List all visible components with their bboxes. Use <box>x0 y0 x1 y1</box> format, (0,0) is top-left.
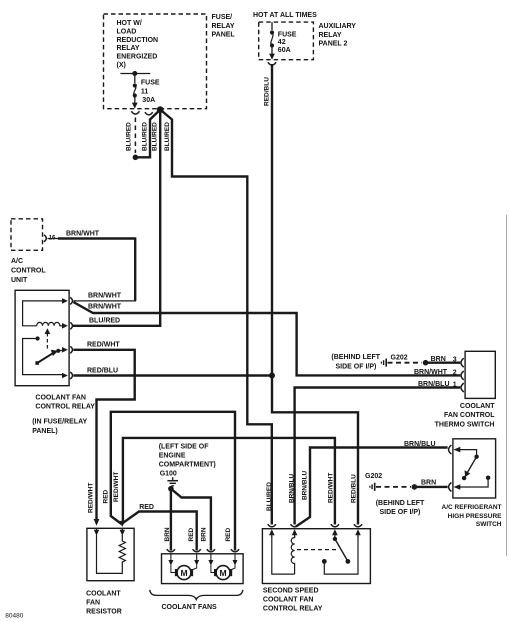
svg-text:HIGH PRESSURE: HIGH PRESSURE <box>448 513 502 520</box>
ground G202 (thermo switch side) <box>381 355 407 367</box>
svg-text:BRN/BLU: BRN/BLU <box>404 441 436 448</box>
pressure switch pin cups <box>449 445 452 491</box>
svg-text:BRN/WHT: BRN/WHT <box>66 231 100 238</box>
svg-text:BRN/WHT: BRN/WHT <box>414 369 448 376</box>
wire RED resistor output to fan 1 <box>124 504 197 550</box>
coolant fans connector cups <box>167 549 239 552</box>
svg-text:11: 11 <box>141 88 149 95</box>
resistor element <box>119 535 125 566</box>
svg-text:FUSE/: FUSE/ <box>212 14 233 21</box>
svg-text:RED: RED <box>139 504 154 511</box>
svg-text:BRN: BRN <box>201 527 208 541</box>
A/C control unit dashed box <box>11 219 46 284</box>
svg-text:CONTROL RELAY: CONTROL RELAY <box>35 404 95 411</box>
connector cup below fuse 11 <box>131 111 139 114</box>
resistor caption <box>86 591 122 616</box>
wire BRN/BLU thermo pin 1 to second speed relay <box>295 381 461 524</box>
svg-text:BRN: BRN <box>421 480 436 487</box>
svg-text:AUXILIARY: AUXILIARY <box>319 23 357 30</box>
thermo switch pin cups <box>461 358 464 392</box>
svg-text:RED/BLU: RED/BLU <box>87 367 118 374</box>
svg-text:BLU/RED: BLU/RED <box>126 122 133 151</box>
svg-text:COOLANT FANS: COOLANT FANS <box>162 604 218 611</box>
engine compartment note <box>159 444 216 478</box>
wire BLU/RED main feed to coolant fan control relay <box>72 110 160 326</box>
svg-text:ENGINE: ENGINE <box>159 453 186 460</box>
wire BRN ground to fan 2 <box>171 489 211 551</box>
relay coil <box>37 322 63 325</box>
relay coil internal wiring <box>23 301 63 326</box>
svg-text:BRN/BLU: BRN/BLU <box>289 473 296 503</box>
svg-text:BRN: BRN <box>164 527 171 541</box>
svg-text:FAN: FAN <box>86 600 100 607</box>
svg-text:BRN/WHT: BRN/WHT <box>88 303 122 310</box>
second speed relay switch <box>322 536 358 574</box>
pressure switch caption <box>442 504 503 528</box>
svg-text:PANEL): PANEL) <box>32 428 58 435</box>
svg-text:RED/WHT: RED/WHT <box>88 483 95 513</box>
connector cup wire 2 <box>145 112 153 115</box>
ground G100 symbol <box>167 477 178 491</box>
relay actuator dashed link <box>45 328 51 350</box>
svg-text:CONTROL RELAY: CONTROL RELAY <box>263 606 323 613</box>
svg-text:BRN/BLU: BRN/BLU <box>302 470 309 500</box>
svg-text:BLU/RED: BLU/RED <box>152 122 159 151</box>
svg-text:BLU/RED: BLU/RED <box>266 482 273 511</box>
fuse/relay panel dashed box <box>104 14 236 109</box>
svg-text:(LEFT SIDE OF: (LEFT SIDE OF <box>159 444 210 451</box>
relay terminal 4 (RED/BLU) <box>62 372 73 379</box>
connector cup below fuse 42 <box>268 62 276 65</box>
node (X) tap with junction dot <box>120 71 150 76</box>
fuse 42 60A <box>269 22 297 60</box>
svg-text:30A: 30A <box>142 97 155 104</box>
relay switch common wiring <box>23 336 63 374</box>
second speed relay connector cups <box>268 524 362 527</box>
svg-text:BRN/WHT: BRN/WHT <box>88 293 122 300</box>
resistor entry arrows <box>94 528 125 536</box>
svg-text:(BEHIND LEFT: (BEHIND LEFT <box>376 500 425 507</box>
pin 16 connector <box>44 235 56 242</box>
coolant fan control relay box <box>15 290 69 385</box>
wire RED/WHT relay terminal 3 to resistor <box>73 342 134 526</box>
second speed relay caption <box>263 588 323 613</box>
svg-text:A/C REFRIGERANT: A/C REFRIGERANT <box>442 504 502 511</box>
svg-text:SIDE OF I/P): SIDE OF I/P) <box>336 363 377 370</box>
svg-text:COMPARTMENT): COMPARTMENT) <box>159 462 216 469</box>
resistor internal wiring <box>97 535 123 573</box>
relay terminal 2 (BLU/RED) <box>62 322 73 329</box>
relay switch arm <box>35 349 63 365</box>
svg-text:RED: RED <box>225 527 232 541</box>
svg-text:RELAY: RELAY <box>117 45 140 52</box>
svg-text:A/C: A/C <box>11 258 23 265</box>
svg-text:PANEL 2: PANEL 2 <box>319 41 348 48</box>
svg-text:FUSE: FUSE <box>278 31 297 38</box>
svg-text:COOLANT: COOLANT <box>86 591 121 598</box>
svg-text:THERMO SWITCH: THERMO SWITCH <box>435 421 495 428</box>
svg-text:COOLANT FAN: COOLANT FAN <box>35 395 86 402</box>
svg-text:ENERGIZED: ENERGIZED <box>117 54 158 61</box>
svg-text:BRN/BLU: BRN/BLU <box>418 381 450 388</box>
svg-text:FAN CONTROL: FAN CONTROL <box>444 412 495 419</box>
wire RED/WHT second speed relay to resistor <box>123 438 335 525</box>
wire BRN/WHT from A/C unit pin 16 to relay <box>48 231 136 301</box>
svg-text:42: 42 <box>278 39 286 46</box>
svg-text:RED: RED <box>102 489 109 503</box>
second speed relay entry arrows <box>269 529 361 537</box>
svg-text:UNIT: UNIT <box>11 277 28 284</box>
wire RED/BLU relay terminal 4 to splice <box>73 367 272 375</box>
relay caption <box>32 395 95 435</box>
svg-text:60A: 60A <box>278 47 291 54</box>
svg-text:RELAY: RELAY <box>212 23 235 30</box>
wire BRN ground to fan 1 <box>170 489 172 551</box>
svg-text:2: 2 <box>453 369 457 376</box>
svg-text:BLU/RED: BLU/RED <box>164 122 171 151</box>
svg-text:RED/WHT: RED/WHT <box>327 473 334 503</box>
svg-text:RED/BLU: RED/BLU <box>263 77 270 106</box>
svg-text:RED/BLU: RED/BLU <box>350 474 357 503</box>
resistor feed convergence arrow <box>119 521 125 527</box>
svg-text:(BEHIND LEFT: (BEHIND LEFT <box>331 354 380 361</box>
svg-text:CONTROL: CONTROL <box>11 268 46 275</box>
svg-text:COOLANT: COOLANT <box>460 403 495 410</box>
svg-text:HOT AT ALL TIMES: HOT AT ALL TIMES <box>253 12 317 19</box>
svg-text:SWITCH: SWITCH <box>476 521 502 528</box>
relay terminal 3 (RED/WHT) <box>62 346 73 353</box>
svg-text:RESISTOR: RESISTOR <box>86 609 122 616</box>
second speed coolant fan control relay box <box>262 529 370 584</box>
svg-text:SECOND SPEED: SECOND SPEED <box>263 588 319 595</box>
fans entry arrows <box>168 554 237 566</box>
splice node on panel edge (fuse 11 output) <box>157 106 164 113</box>
svg-text:BLU/RED: BLU/RED <box>141 122 148 151</box>
svg-text:G202: G202 <box>365 473 382 480</box>
second speed relay coil <box>291 536 294 574</box>
wire BLU/RED dashed stub with terminal dot <box>133 118 139 161</box>
second speed relay actuator dashed link <box>297 549 338 551</box>
wire BLU/RED feed to second speed relay <box>160 110 272 525</box>
A/C refrigerant high pressure switch box <box>453 439 496 498</box>
thermo switch caption <box>435 403 496 428</box>
wire BRN/BLU pressure switch to second speed relay <box>296 441 448 527</box>
wire BRN dashed ground lead to thermo pin 3 <box>388 356 461 366</box>
second speed relay coil wiring <box>272 536 295 574</box>
coolant fan control thermo switch box <box>465 351 495 398</box>
svg-text:RELAY: RELAY <box>319 32 342 39</box>
svg-text:REDUCTION: REDUCTION <box>117 37 159 44</box>
svg-text:G100: G100 <box>160 471 177 478</box>
svg-text:BLU/RED: BLU/RED <box>89 317 120 324</box>
svg-text:80480: 80480 <box>5 613 23 620</box>
behind-left-side note (pressure) <box>376 500 425 516</box>
svg-text:M: M <box>220 568 227 578</box>
svg-text:HOT W/: HOT W/ <box>117 20 142 27</box>
splice junction dot (RED/BLU to fuse 42 feed) <box>269 373 275 379</box>
wire RED resistor node to fan 2 <box>111 412 235 551</box>
svg-text:(IN FUSE/RELAY: (IN FUSE/RELAY <box>32 419 87 426</box>
relay terminal 1 (BRN/WHT) <box>62 297 73 304</box>
wire RED/BLU from fuse 42 down to second speed relay <box>272 64 358 525</box>
svg-text:COOLANT FAN: COOLANT FAN <box>263 597 314 604</box>
fan motor 2 <box>211 565 235 580</box>
svg-text:M: M <box>180 568 187 578</box>
svg-text:(X): (X) <box>117 62 126 69</box>
wire BLU/RED short branch to dashed terminal <box>138 110 160 158</box>
svg-text:RED: RED <box>188 527 195 541</box>
scan edge artifact line <box>506 215 508 556</box>
coolant fans brace <box>150 590 243 600</box>
svg-text:PANEL: PANEL <box>212 31 236 38</box>
wire BRN/WHT relay terminal 1 to pin16 riser <box>73 293 136 301</box>
svg-text:SIDE OF I/P): SIDE OF I/P) <box>380 509 421 516</box>
auxiliary relay panel 2 dashed box <box>253 12 356 60</box>
fan motor 1 <box>171 565 197 580</box>
svg-text:BRN: BRN <box>431 356 446 363</box>
behind-left-side note (thermo) <box>331 354 380 370</box>
svg-text:RED/WHT: RED/WHT <box>87 342 120 349</box>
svg-text:3: 3 <box>453 356 457 363</box>
svg-text:G202: G202 <box>391 355 408 362</box>
wire BRN/WHT relay terminal 1 to thermo switch pin 2 <box>73 302 460 375</box>
svg-text:FUSE: FUSE <box>141 80 160 87</box>
wire BRN dashed ground lead to pressure switch <box>376 480 448 490</box>
svg-text:LOAD: LOAD <box>117 28 137 35</box>
svg-text:RED/WHT: RED/WHT <box>113 472 120 502</box>
label BRN/WHT + pin 2 (thermo) <box>414 369 457 376</box>
svg-text:1: 1 <box>453 381 457 388</box>
coolant fans box <box>162 554 244 584</box>
ground G202 (pressure switch side) <box>365 473 382 491</box>
pressure switch internal contacts <box>454 447 491 490</box>
fuse 11 30A <box>132 74 160 109</box>
coolant fan resistor box <box>87 528 134 580</box>
